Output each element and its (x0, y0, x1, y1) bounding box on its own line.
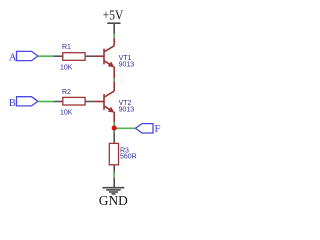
svg-text:10K: 10K (60, 109, 73, 116)
svg-text:R2: R2 (62, 89, 71, 96)
wire R3 to ground (113, 172, 115, 178)
node F port (135, 124, 153, 133)
svg-text:B: B (9, 97, 16, 109)
ground (103, 178, 125, 194)
resistor R3 (109, 132, 136, 172)
svg-text:+5V: +5V (103, 8, 124, 23)
svg-text:GND: GND (99, 193, 128, 208)
svg-text:9013: 9013 (119, 107, 135, 114)
wire junction to F port (114, 127, 135, 129)
wire A to R1 (38, 55, 54, 57)
svg-text:9013: 9013 (119, 61, 135, 68)
VT1 emitter arrow (108, 62, 115, 68)
wire VT1 emitter to VT2 collector (113, 78, 115, 82)
VT2 emitter arrow (108, 107, 115, 113)
svg-text:R1: R1 (62, 44, 71, 51)
resistor R2 (54, 89, 94, 116)
transistor VT2 (94, 82, 114, 123)
svg-text:A: A (9, 52, 17, 64)
svg-text:10K: 10K (60, 64, 73, 71)
svg-text:560R: 560R (120, 154, 137, 161)
power terminal symbol (107, 23, 120, 34)
junction dot (112, 125, 117, 130)
resistor R1 (54, 44, 94, 71)
wire B to R2 (38, 101, 54, 103)
wire power to VT1 collector (113, 34, 115, 39)
transistor VT1 (94, 38, 114, 79)
wire junction down to R3 (113, 128, 115, 133)
wire VT2 emitter to junction (113, 122, 115, 128)
svg-text:F: F (155, 123, 161, 135)
